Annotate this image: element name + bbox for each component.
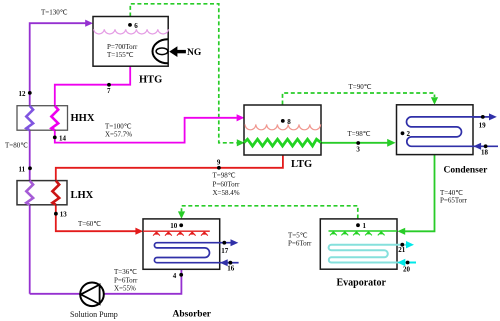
wire: purple solution line pump to HHX to HTG, T=130C bbox=[30, 20, 182, 294]
chilled water inlet arrow node 20 bbox=[397, 259, 416, 266]
HTG liquid surface scallops bbox=[94, 29, 169, 34]
wire: green refrigerant line Condenser bottom to Evaporator bbox=[397, 155, 434, 235]
svg-text:1: 1 bbox=[363, 222, 367, 230]
absorber water inlet arrow node 16 bbox=[220, 259, 239, 266]
HTG box bbox=[93, 17, 168, 67]
svg-text:T=60℃: T=60℃ bbox=[78, 220, 101, 228]
node 3 bbox=[356, 141, 360, 153]
svg-text:T=5℃: T=5℃ bbox=[288, 232, 308, 240]
LHX hot-side zigzag (red) bbox=[52, 181, 59, 205]
svg-text:2: 2 bbox=[407, 130, 411, 138]
svg-text:T=80℃: T=80℃ bbox=[5, 142, 28, 150]
node 21 bbox=[398, 243, 406, 254]
Absorber spray line with upward spray arrowheads bbox=[143, 231, 210, 235]
LHX cold-side zigzag (purple) bbox=[26, 181, 33, 205]
node 2 bbox=[401, 130, 411, 138]
node 9 value labels T=98C P=60Torr X=58.4% bbox=[213, 172, 240, 198]
LTG liquid surface scallops bbox=[245, 124, 321, 129]
wire: green refrigerant line LTG to Condenser, T=98C bbox=[321, 139, 396, 147]
svg-text:9: 9 bbox=[217, 159, 221, 167]
svg-text:T=36℃: T=36℃ bbox=[114, 268, 137, 276]
wire: green dashed vapor line HTG top to LTG left bbox=[130, 4, 244, 147]
HTG value labels P=700Torr T=155C bbox=[107, 43, 138, 59]
svg-text:HTG: HTG bbox=[139, 75, 162, 86]
T=100C X=57.7% labels bbox=[105, 123, 132, 139]
LTG box bbox=[244, 105, 321, 155]
svg-text:Solution Pump: Solution Pump bbox=[70, 310, 118, 319]
node 14 bbox=[53, 134, 67, 142]
svg-text:P=60Torr: P=60Torr bbox=[213, 181, 240, 189]
svg-text:18: 18 bbox=[481, 149, 489, 157]
svg-text:T=98℃: T=98℃ bbox=[213, 172, 236, 180]
cooling water inlet arrow node 18 bbox=[473, 143, 498, 150]
LTG green heating coil zigzag bbox=[244, 139, 321, 146]
svg-text:12: 12 bbox=[19, 90, 27, 98]
svg-text:T=155℃: T=155℃ bbox=[107, 51, 134, 59]
chilled water outlet arrow node 21 bbox=[406, 241, 414, 248]
svg-text:11: 11 bbox=[19, 165, 26, 173]
svg-text:P=65Torr: P=65Torr bbox=[440, 197, 467, 205]
node 18 bbox=[481, 144, 489, 156]
wire: magenta solution line HTG bottom via HHX to LTG bbox=[55, 66, 245, 142]
svg-text:14: 14 bbox=[59, 134, 67, 142]
Absorber value labels T=36C P=6Torr X=55% bbox=[114, 268, 138, 293]
node 7 bbox=[107, 83, 111, 95]
HHX hot-side zigzag (magenta) bbox=[51, 106, 58, 131]
node 20 bbox=[403, 261, 411, 274]
svg-text:Evaporator: Evaporator bbox=[337, 278, 387, 289]
svg-text:NG: NG bbox=[187, 48, 202, 58]
node 8 bbox=[281, 118, 291, 126]
Evaporator value labels T=5C P=6Torr bbox=[288, 232, 312, 248]
Condenser cooling water coil bbox=[407, 117, 482, 146]
node 10 bbox=[170, 222, 183, 230]
svg-text:6: 6 bbox=[134, 22, 138, 30]
svg-text:Absorber: Absorber bbox=[173, 310, 212, 320]
svg-text:LTG: LTG bbox=[291, 159, 312, 170]
node 11 bbox=[19, 165, 32, 173]
absorber water outlet arrow node 17 bbox=[231, 239, 239, 246]
svg-text:T=130℃: T=130℃ bbox=[41, 9, 68, 17]
Condenser value labels T=40C P=65Torr bbox=[440, 189, 467, 205]
node 17 bbox=[221, 241, 229, 255]
svg-text:T=98℃: T=98℃ bbox=[348, 130, 371, 138]
Condenser box bbox=[397, 105, 474, 155]
node 16 bbox=[227, 261, 235, 273]
svg-text:P=6Torr: P=6Torr bbox=[114, 277, 138, 285]
Evaporator spray line with upward spray arrowheads (green) bbox=[329, 231, 398, 235]
wire: red solution line LTG bottom via LHX to Absorber, T=60C bbox=[56, 155, 283, 235]
svg-text:20: 20 bbox=[403, 265, 411, 273]
node 6 bbox=[128, 22, 138, 30]
Absorber box bbox=[143, 219, 220, 269]
svg-text:Condenser: Condenser bbox=[444, 166, 489, 176]
Evaporator box bbox=[320, 219, 397, 269]
svg-text:16: 16 bbox=[227, 265, 235, 273]
solution pump bbox=[80, 283, 104, 307]
svg-text:X=55%: X=55% bbox=[114, 285, 136, 293]
svg-text:3: 3 bbox=[356, 146, 360, 154]
svg-text:10: 10 bbox=[170, 222, 178, 230]
svg-text:8: 8 bbox=[287, 118, 291, 126]
svg-text:X=57.7%: X=57.7% bbox=[105, 131, 132, 139]
HHX box bbox=[17, 106, 68, 131]
wire: green dashed vapor line LTG top to Condenser top, T=90C bbox=[283, 93, 439, 105]
svg-text:T=90℃: T=90℃ bbox=[349, 83, 372, 91]
svg-text:T=100℃: T=100℃ bbox=[105, 123, 132, 131]
svg-text:7: 7 bbox=[107, 87, 111, 95]
Evaporator chilled-water coil (cyan) bbox=[329, 245, 406, 263]
node 1 bbox=[356, 222, 366, 230]
svg-text:P=700Torr: P=700Torr bbox=[107, 43, 138, 51]
wire: green dashed vapor line Evaporator top to Absorber top bbox=[178, 206, 358, 219]
node 13 bbox=[54, 211, 67, 219]
svg-text:21: 21 bbox=[398, 246, 406, 254]
node 4 bbox=[173, 272, 183, 280]
cooling water outlet arrow node 19 bbox=[473, 113, 497, 120]
node 19 bbox=[479, 115, 487, 129]
node 9 bbox=[217, 159, 221, 170]
NG burner bbox=[152, 39, 185, 63]
Absorber chilled-water coil bbox=[154, 243, 231, 263]
svg-text:19: 19 bbox=[479, 121, 487, 129]
svg-text:13: 13 bbox=[60, 211, 67, 219]
svg-text:LHX: LHX bbox=[71, 190, 94, 201]
HHX cold-side zigzag (purple) bbox=[26, 106, 33, 131]
svg-text:17: 17 bbox=[221, 247, 229, 255]
node 12 bbox=[19, 90, 32, 98]
LHX box bbox=[17, 181, 67, 205]
svg-text:X=58.4%: X=58.4% bbox=[213, 189, 240, 197]
svg-text:P=6Torr: P=6Torr bbox=[288, 240, 312, 248]
svg-text:4: 4 bbox=[173, 272, 177, 280]
svg-text:HHX: HHX bbox=[71, 113, 95, 124]
